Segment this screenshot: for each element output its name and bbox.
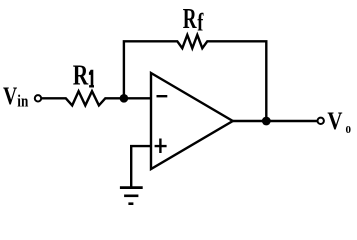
svg-text:in: in [17, 91, 28, 110]
svg-text:V: V [327, 108, 342, 135]
svg-text:f: f [197, 10, 204, 37]
svg-text:R: R [73, 59, 89, 91]
svg-text:V: V [3, 83, 17, 110]
svg-text:0: 0 [346, 124, 352, 136]
svg-text:R: R [183, 3, 197, 35]
